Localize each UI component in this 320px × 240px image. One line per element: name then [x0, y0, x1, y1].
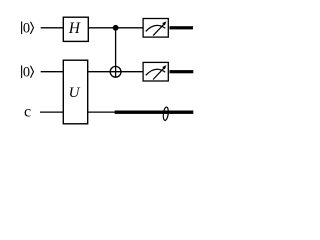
classical thick output wire q0 — [170, 26, 194, 29]
svg-text:c: c — [24, 104, 31, 121]
wire q0 segment mid — [88, 27, 143, 29]
wire c segment right thin — [88, 111, 116, 113]
svg-text:0: 0 — [23, 21, 30, 37]
svg-text:U: U — [69, 85, 81, 101]
gate U (two rows) — [63, 60, 87, 124]
theta label on classical wire — [163, 107, 169, 121]
classical thick output wire q1 — [170, 70, 194, 73]
gate H — [63, 17, 88, 41]
qubit label |0> (top) — [22, 21, 34, 37]
classical thick wire c — [115, 111, 194, 114]
vertical control wire — [115, 28, 117, 78]
CNOT target — [110, 66, 121, 77]
control dot — [113, 25, 119, 31]
meter M0 — [143, 19, 168, 38]
wire q1 segment left — [41, 71, 64, 73]
svg-text:H: H — [68, 20, 81, 37]
wire q0 segment left — [41, 27, 64, 29]
meter M1 — [143, 62, 168, 81]
wire q1 segment mid — [88, 71, 143, 73]
wire c segment left — [40, 111, 64, 113]
svg-text:0: 0 — [23, 65, 30, 81]
qubit label |0> (middle) — [22, 65, 34, 81]
